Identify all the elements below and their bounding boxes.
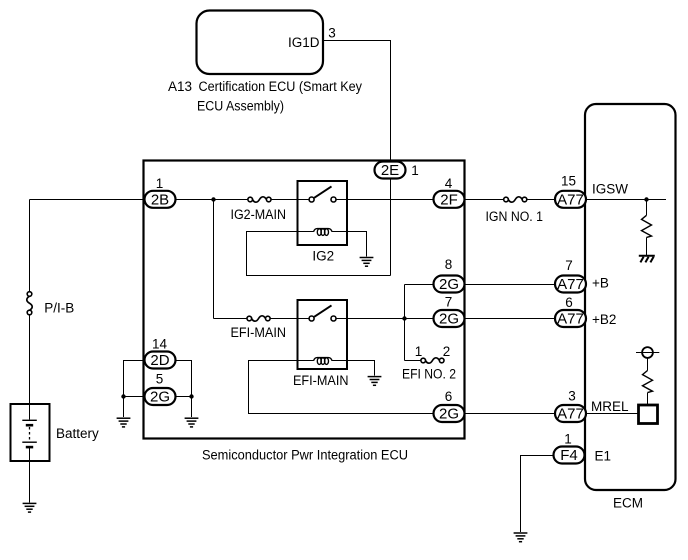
wire fuse to IG2 relay [271,199,311,201]
relay IG2 box [298,181,348,245]
svg-text:P/I-B: P/I-B [44,300,74,315]
wire MREL internal [586,413,638,415]
wire IGSW internal [586,199,666,201]
svg-text:Battery: Battery [56,426,99,441]
wire 2G5 left [124,396,145,398]
fuse EFI-MAIN [247,316,270,321]
connector A77 pin6 [555,310,586,328]
svg-text:A77: A77 [557,406,584,423]
wire coil drive loop from 2G6 [249,361,434,414]
svg-text:4: 4 [445,176,453,191]
svg-text:+B2: +B2 [592,312,616,327]
wire to EFI NO.2 fuse [405,360,422,362]
connector F4 pin1 [554,447,585,465]
wire IGN fuse to A77 [527,199,555,201]
connector 2G pin5 [145,388,176,406]
wire battery column [29,200,31,292]
svg-text:7: 7 [445,295,453,310]
wire 2E into ECU down [390,179,392,276]
wire coil to ground [332,232,366,257]
svg-text:A77: A77 [557,276,584,293]
wire 2F to IGN fuse [465,199,504,201]
svg-text:14: 14 [152,337,168,352]
wire E1 to ground [521,456,554,533]
connector 2D pin14 [145,352,176,370]
battery cells [22,404,37,461]
svg-text:1: 1 [415,344,423,359]
connector 2G pin6 [434,405,465,423]
svg-text:EFI-MAIN: EFI-MAIN [231,325,287,340]
ECM box [585,104,676,490]
svg-text:1: 1 [156,176,164,191]
svg-text:MREL: MREL [591,399,629,414]
wire branch down to EFI-MAIN [213,200,215,319]
wire 2G7 to A77 +B2 [465,318,556,320]
svg-text:IGN NO. 1: IGN NO. 1 [486,209,544,224]
certification ECU box A13 [197,11,324,75]
wire EFI branch to fuse [214,318,248,320]
svg-text:2B: 2B [151,191,169,208]
wire loop to IG2 coil [247,232,391,276]
svg-text:IGSW: IGSW [592,182,628,197]
driver block MREL [639,405,658,424]
svg-text:Semiconductor Pwr Integration: Semiconductor Pwr Integration ECU [202,447,408,462]
svg-text:EFI-MAIN: EFI-MAIN [293,373,349,388]
connector 2F [434,191,465,209]
fuse IGN NO. 1 [504,197,527,202]
wire resistor to ground [646,237,648,255]
fuse EFI NO. 2 [421,358,444,363]
wire IG1D to 2E [323,41,391,162]
connector 2G pin7 [434,310,465,328]
svg-text:ECM: ECM [613,496,643,511]
power source node B+ [636,347,659,358]
ground IG2 coil [360,258,374,267]
svg-text:ECU Assembly): ECU Assembly) [197,99,284,114]
connector A77 pin3 [555,405,586,423]
ground battery [23,503,37,512]
svg-text:15: 15 [561,174,576,189]
relay IG2 switch [309,186,336,202]
wire 2G8 to A77 +B [465,284,556,286]
label A13 Certification ECU [168,79,362,114]
ground left of ECU [117,418,131,427]
wire 2G8 row [405,284,434,286]
wire to resistor [646,200,648,216]
svg-text:7: 7 [565,258,573,273]
ground inside ECU [185,418,199,427]
connector 2E [375,162,406,180]
wire coil to ground [332,361,374,376]
wire source to resistor [647,358,649,371]
connector A77 pin15 [555,191,586,209]
relay IG2 coil [247,229,333,236]
wire 2D right to ground [176,361,192,418]
svg-text:2G: 2G [150,389,170,406]
wire fuse to battery [29,315,31,404]
svg-text:2F: 2F [440,191,458,208]
svg-text:2G: 2G [439,276,459,293]
semiconductor power integration ECU box [144,161,465,439]
wire 2B to IG2-MAIN fuse [176,199,249,201]
svg-text:6: 6 [565,295,573,310]
wire 2G6 to A77 MREL [465,413,556,415]
svg-text:8: 8 [445,257,453,272]
svg-text:F4: F4 [560,447,578,464]
svg-text:2G: 2G [439,406,459,423]
svg-text:IG1D: IG1D [288,35,320,50]
relay EFI-MAIN coil [298,358,333,365]
svg-text:1: 1 [564,432,572,447]
svg-text:+B: +B [592,276,609,291]
node junction EFI row [402,316,406,320]
wire branch vertical 2G8 to EFI NO.2 [404,285,406,361]
svg-text:2E: 2E [381,162,399,179]
svg-text:E1: E1 [595,449,612,464]
node junction IGSW resistor [644,197,648,201]
ground E1 [514,533,528,542]
node junction left ground [121,394,125,398]
svg-text:A77: A77 [557,191,584,208]
relay EFI-MAIN switch [309,305,336,321]
svg-text:2: 2 [443,344,451,359]
node junction at 2B branch [211,197,215,201]
fuse P/I-B [27,292,32,315]
svg-text:5: 5 [156,372,164,387]
svg-text:Certification ECU (Smart Key: Certification ECU (Smart Key [199,79,363,94]
svg-text:6: 6 [445,389,453,404]
fuse IG2-MAIN [248,197,271,202]
svg-text:3: 3 [568,389,576,404]
wire switch to 2F [336,199,434,201]
wire switch to 2G pin7 [336,318,434,320]
svg-text:2D: 2D [150,352,169,369]
node junction right ground [189,394,193,398]
wire 2D left to ground [124,361,145,418]
svg-text:3: 3 [328,26,336,41]
wire battery feed to 2B [30,199,145,201]
wire resistor to driver [647,393,649,405]
resistor IGSW pull-down [642,215,652,237]
svg-text:A77: A77 [557,311,584,328]
svg-text:IG2-MAIN: IG2-MAIN [231,207,287,222]
svg-text:IG2: IG2 [312,248,334,263]
svg-text:1: 1 [411,163,419,178]
wire 2G5 right [176,396,192,398]
svg-text:EFI NO. 2: EFI NO. 2 [402,367,456,382]
ground ECM internal IGSW [639,256,655,263]
ground EFI coil [368,377,382,386]
connector A77 pin7 [555,276,586,294]
wire battery to ground [29,461,31,503]
resistor MREL [643,371,653,393]
connector 2G pin8 [434,276,465,294]
connector 2B [145,191,176,209]
wire fuse to EFI relay [270,318,311,320]
relay EFI-MAIN box [298,300,348,369]
battery box [11,404,50,461]
svg-text:2G: 2G [439,311,459,328]
svg-text:A13: A13 [168,79,192,94]
